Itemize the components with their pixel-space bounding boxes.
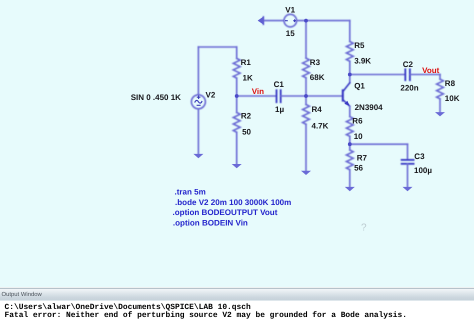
- svg-text:R2: R2: [241, 111, 252, 120]
- svg-text:R6: R6: [352, 116, 363, 125]
- svg-text:?: ?: [361, 223, 367, 234]
- svg-text:C3: C3: [414, 152, 425, 161]
- svg-text:3.9K: 3.9K: [354, 57, 371, 66]
- svg-text:R3: R3: [310, 58, 321, 67]
- svg-text:SIN 0 .450 1K: SIN 0 .450 1K: [131, 93, 181, 102]
- svg-text:R7: R7: [357, 153, 368, 162]
- svg-text:V2: V2: [206, 91, 216, 100]
- svg-text:2N3904: 2N3904: [355, 103, 384, 112]
- svg-text:R4: R4: [312, 105, 323, 114]
- svg-text:10: 10: [354, 132, 363, 141]
- svg-text:C2: C2: [403, 60, 414, 69]
- svg-text:50: 50: [242, 127, 251, 136]
- svg-text:.option BODEOUTPUT Vout: .option BODEOUTPUT Vout: [173, 208, 278, 217]
- svg-text:15: 15: [286, 29, 295, 38]
- svg-text:C1: C1: [274, 80, 285, 89]
- svg-text:Vin: Vin: [252, 87, 264, 96]
- svg-text:100µ: 100µ: [414, 166, 432, 175]
- svg-text:Output Window: Output Window: [2, 291, 43, 298]
- svg-text:68K: 68K: [310, 73, 325, 82]
- svg-text:R8: R8: [445, 79, 456, 88]
- svg-text:.option BODEIN Vin: .option BODEIN Vin: [173, 219, 248, 228]
- svg-text:4.7K: 4.7K: [312, 122, 329, 131]
- svg-text:R5: R5: [354, 41, 365, 50]
- svg-text:10K: 10K: [445, 94, 460, 103]
- svg-text:220n: 220n: [400, 84, 418, 93]
- svg-text:1K: 1K: [243, 74, 253, 83]
- svg-text:V1: V1: [285, 5, 295, 14]
- svg-text:1µ: 1µ: [275, 105, 284, 114]
- svg-text:Q1: Q1: [354, 81, 365, 90]
- svg-text:56: 56: [354, 164, 363, 173]
- svg-text:Vout: Vout: [422, 66, 440, 75]
- svg-text:R1: R1: [241, 58, 252, 67]
- svg-text:.bode V2 20m 100 3000K 100m: .bode V2 20m 100 3000K 100m: [175, 198, 291, 207]
- svg-text:.tran 5m: .tran 5m: [175, 188, 206, 197]
